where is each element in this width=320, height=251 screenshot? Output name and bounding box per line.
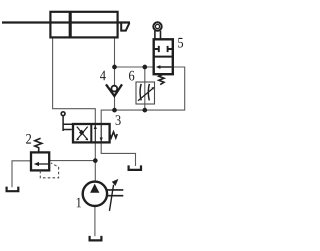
wire: relief valve outlet to tank bbox=[12, 161, 31, 187]
flow control valve 6 box bbox=[136, 82, 155, 104]
label 3 (directional valve) bbox=[116, 115, 121, 125]
wire: check valve 4 line upper segment bbox=[114, 67, 116, 85]
relief valve 2 pilot line (dashed) bbox=[40, 163, 58, 178]
valve 5 blocked ports (top box T symbols) bbox=[154, 46, 173, 52]
relief valve 2 spring bbox=[35, 138, 42, 152]
wire: relief valve branch from pump line bbox=[49, 160, 95, 162]
wire: branch down through flow control 6 to bottom net bbox=[144, 67, 146, 110]
node: rod-end line / top net junction bbox=[112, 65, 117, 70]
flow control valve 6 throttle arcs bbox=[140, 84, 149, 101]
label 4 (check valve) bbox=[100, 71, 106, 81]
relief valve 2 internal arrow bbox=[36, 163, 49, 165]
node: check valve / bottom net junction bbox=[112, 108, 117, 113]
valve 5 return spring bbox=[159, 74, 164, 84]
tank under relief valve 2 bbox=[7, 187, 19, 192]
relief valve 2 box bbox=[31, 152, 49, 170]
wire: cylinder cap-end port down-right to valve 3 top-left port bbox=[53, 38, 96, 125]
wire: valve 3 top-right port up to bottom net and right loop up to valve 5 right port bbox=[101, 67, 185, 125]
wire: cylinder rod-end port down to node at y=67 bbox=[114, 38, 116, 67]
valve 5 roller stem bbox=[155, 31, 161, 40]
node: pump line / relief branch junction bbox=[93, 158, 98, 163]
valve 3 lever actuator bbox=[61, 112, 65, 116]
label 1 (pump) bbox=[77, 198, 81, 208]
pump 1 circle bbox=[83, 182, 107, 206]
wire: check valve 4 line lower segment bbox=[114, 96, 116, 111]
wire: pump inlet down to tank bbox=[94, 206, 96, 237]
valve 5 flow arrow (bottom box) bbox=[159, 66, 172, 68]
wire: top net y=67 from node to valve 5 left port bbox=[115, 66, 154, 68]
pump 1 variable displacement arrow bbox=[109, 185, 113, 211]
flow control valve 6 adjustment arrow bbox=[138, 88, 153, 101]
label 5 (roller valve) bbox=[178, 38, 183, 48]
wire: valve 3 bottom-right port to tank bbox=[101, 142, 135, 166]
valve 5 roller bbox=[153, 22, 161, 30]
wire: valve 3 bottom-left port down to pump outlet bbox=[94, 142, 96, 182]
valve 3 parallel arrows (right box) bbox=[95, 125, 101, 143]
cylinder body bbox=[50, 12, 117, 38]
tank under pump 1 bbox=[90, 236, 102, 241]
label 6 (flow control) bbox=[129, 71, 134, 81]
tank for valve 3 return bbox=[129, 165, 141, 170]
valve 5 body (two boxes) bbox=[154, 39, 173, 74]
cylinder piston rod (through rod, left and right) bbox=[2, 21, 130, 23]
label 2 (relief valve) bbox=[26, 134, 31, 144]
check valve 4 ball bbox=[111, 86, 117, 92]
cam / dog on rod end bbox=[121, 23, 129, 31]
cylinder piston bbox=[69, 12, 72, 38]
node: flow control / bottom net junction bbox=[142, 108, 147, 113]
valve 3 return spring bbox=[110, 132, 118, 138]
node: top net / flow control branch junction bbox=[142, 65, 147, 70]
pump 1 outlet triangle bbox=[90, 184, 99, 193]
valve 3 crossed arrows (left box) bbox=[77, 127, 88, 140]
check valve 4 vee bbox=[106, 84, 122, 96]
pump 1 side lines bbox=[106, 190, 123, 196]
valve 3 body (two boxes) bbox=[73, 124, 110, 142]
